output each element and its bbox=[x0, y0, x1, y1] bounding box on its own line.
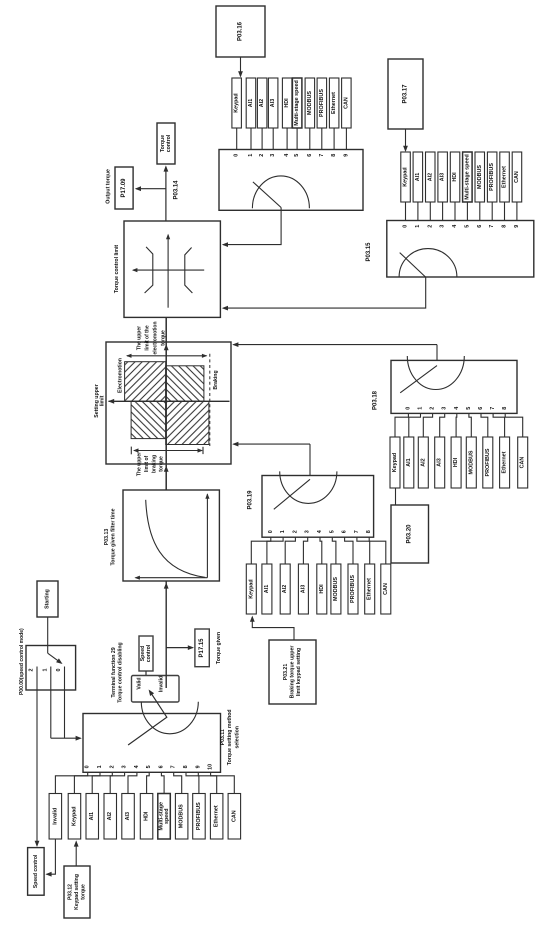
svg-text:AI3: AI3 bbox=[125, 812, 131, 820]
wire CAN to mux2 pin 9 bbox=[516, 202, 518, 221]
wire mux4 pin 3 to AI3 bbox=[303, 537, 307, 564]
double arrow: upper limit of electromotion torque span bbox=[127, 355, 207, 357]
svg-text:PROFIBUS: PROFIBUS bbox=[319, 89, 325, 117]
wire mux4 pin 1 to AI1 bbox=[267, 537, 283, 564]
svg-text:P03.14: P03.14 bbox=[174, 180, 180, 200]
svg-text:CAN: CAN bbox=[343, 97, 349, 109]
svg-text:Speed: Speed bbox=[140, 646, 146, 662]
input box AI1 (bank2) bbox=[413, 152, 423, 202]
svg-text:Ethernet: Ethernet bbox=[331, 92, 337, 114]
wire Keypad to mux2 pin 0 bbox=[405, 202, 407, 221]
svg-text:P03.15: P03.15 bbox=[366, 242, 372, 262]
svg-text:Keypad setting: Keypad setting bbox=[74, 874, 80, 910]
svg-text:5: 5 bbox=[466, 407, 472, 410]
svg-text:AI1: AI1 bbox=[264, 585, 270, 593]
input box AI2 (bank5) bbox=[104, 794, 117, 840]
svg-text:MODBUS: MODBUS bbox=[307, 91, 313, 115]
input box Ethernet (bank2) bbox=[500, 152, 510, 202]
svg-text:MODBUS: MODBUS bbox=[333, 577, 339, 601]
svg-text:6: 6 bbox=[307, 154, 313, 157]
svg-text:CAN: CAN bbox=[520, 457, 526, 469]
svg-text:Keypad: Keypad bbox=[234, 93, 240, 112]
limiter horizontal axis bbox=[133, 269, 204, 271]
svg-text:Keypad: Keypad bbox=[248, 579, 254, 598]
input box Keypad (bank4) bbox=[246, 564, 256, 614]
wire MODBUS to mux1 pin 6 bbox=[309, 128, 311, 150]
svg-text:P03.21: P03.21 bbox=[283, 664, 289, 681]
mux P03.15 selector box bbox=[387, 221, 534, 278]
svg-text:Multi-stage speed: Multi-stage speed bbox=[294, 80, 300, 126]
mux1 wiper bbox=[253, 182, 281, 208]
svg-text:HDI: HDI bbox=[452, 172, 458, 182]
svg-text:electromotion: electromotion bbox=[153, 321, 159, 354]
svg-text:limit of the: limit of the bbox=[145, 325, 151, 350]
mux P03.19 selector box bbox=[262, 476, 374, 538]
svg-text:HDI: HDI bbox=[453, 457, 459, 467]
wire mux3 output to quadrant box bbox=[233, 344, 437, 346]
svg-text:Output torque: Output torque bbox=[106, 169, 112, 204]
svg-text:P03.12: P03.12 bbox=[68, 884, 74, 900]
svg-text:Torque control disabling: Torque control disabling bbox=[117, 642, 123, 702]
vertical flow axis of quadrant box bbox=[165, 342, 167, 464]
wire PROFIBUS to mux2 pin 7 bbox=[491, 202, 493, 221]
input box HDI (bank4) bbox=[317, 564, 327, 614]
hatched region quadrant Q4 bbox=[166, 401, 209, 444]
svg-text:AI1: AI1 bbox=[415, 173, 421, 181]
position line 1 bbox=[50, 667, 52, 691]
wire mux3 pin 6 to PROFIBUS bbox=[481, 413, 488, 437]
box P03.20 (electromotion torque upper limit keypad setting) bbox=[391, 505, 429, 563]
wire mux3 pin 3 to AI3 bbox=[440, 413, 445, 437]
input box PROFIBUS (bank3) bbox=[483, 437, 493, 488]
svg-text:5: 5 bbox=[329, 530, 335, 533]
svg-text:Braking: Braking bbox=[213, 370, 219, 389]
wire P03.16 to Keypad input bbox=[240, 57, 242, 76]
svg-text:1: 1 bbox=[415, 225, 421, 228]
wire Invalid to speed control bbox=[47, 839, 56, 874]
wire mux4 pin 4 to HDI bbox=[320, 537, 322, 564]
wire mux3 pin 1 to AI1 bbox=[409, 413, 421, 437]
svg-text:AI2: AI2 bbox=[420, 458, 426, 466]
limiter vertical axis bbox=[167, 235, 169, 308]
svg-text:2: 2 bbox=[430, 407, 436, 410]
svg-text:2: 2 bbox=[109, 765, 115, 768]
input box HDI (bank5) bbox=[140, 794, 153, 840]
svg-text:7: 7 bbox=[489, 225, 495, 228]
svg-text:1: 1 bbox=[42, 669, 48, 672]
input box Multi-stage speed (bank1) bbox=[292, 78, 302, 128]
mux P03.11 torque setting method selection box bbox=[83, 714, 221, 773]
wire valid switch to filter box bbox=[165, 581, 167, 688]
box P03.16 (electromotion torque upper limit keypad value) bbox=[216, 6, 265, 57]
svg-text:5: 5 bbox=[464, 225, 470, 228]
svg-text:7: 7 bbox=[171, 765, 177, 768]
wire filter box to quadrant box bbox=[165, 465, 167, 490]
svg-text:P03.18: P03.18 bbox=[372, 390, 378, 410]
wire position 1 down bbox=[50, 690, 52, 738]
svg-text:P03.20: P03.20 bbox=[407, 524, 413, 544]
svg-text:P03.17: P03.17 bbox=[403, 84, 409, 104]
wire MODBUS to mux2 pin 6 bbox=[479, 202, 481, 221]
input box MODBUS (bank1) bbox=[305, 78, 315, 128]
wire torque control limit to torque control bbox=[165, 167, 167, 221]
svg-text:1: 1 bbox=[248, 154, 254, 157]
box P03.12 keypad setting torque bbox=[64, 866, 90, 918]
svg-text:AI3: AI3 bbox=[440, 173, 446, 181]
wire mux4 output to quadrant box bbox=[233, 443, 310, 445]
svg-text:8: 8 bbox=[502, 225, 508, 228]
svg-text:HDI: HDI bbox=[144, 811, 150, 821]
mux5 wiper to valid/invalid switch bbox=[128, 691, 167, 745]
input box Ethernet (bank3) bbox=[500, 437, 510, 488]
svg-text:3: 3 bbox=[122, 765, 128, 768]
wire branch to P17.15 torque given bbox=[166, 647, 192, 649]
input box HDI (bank2) bbox=[450, 152, 460, 202]
box Starting bbox=[37, 581, 58, 617]
wire mux5 pin 6 to Multi-stage speed bbox=[161, 772, 164, 793]
svg-text:AI1: AI1 bbox=[406, 458, 412, 466]
svg-text:torque: torque bbox=[80, 884, 86, 900]
svg-text:The upper: The upper bbox=[137, 326, 143, 350]
svg-text:7: 7 bbox=[490, 407, 496, 410]
wire mux5 pin 1 to Keypad bbox=[74, 772, 100, 793]
wire mux4 pin 5 to MODBUS bbox=[332, 537, 336, 564]
svg-text:8: 8 bbox=[331, 154, 337, 157]
svg-text:PROFIBUS: PROFIBUS bbox=[485, 448, 491, 476]
box Torque control bbox=[157, 123, 175, 164]
wire Speed control to Valid bbox=[145, 671, 147, 687]
wire mux5 pin 5 to HDI bbox=[147, 772, 150, 793]
svg-text:CAN: CAN bbox=[383, 583, 389, 595]
limiter right clamp curve bbox=[185, 248, 193, 294]
svg-text:0: 0 bbox=[234, 154, 240, 157]
wire mux5 pin 9 to Ethernet bbox=[198, 772, 216, 793]
svg-text:Braking torque upper: Braking torque upper bbox=[290, 646, 296, 699]
position line 2 bbox=[36, 667, 38, 691]
svg-text:P03.11: P03.11 bbox=[220, 729, 226, 745]
wire mux5 pin 4 to AI3 bbox=[128, 772, 137, 793]
svg-text:2: 2 bbox=[292, 530, 298, 533]
svg-text:control: control bbox=[146, 644, 152, 662]
svg-text:2: 2 bbox=[29, 669, 35, 672]
wire mux4 pin 0 to Keypad bbox=[251, 537, 270, 564]
wire mux2 output to torque control limit box bbox=[223, 277, 426, 308]
input box CAN (bank3) bbox=[518, 437, 528, 488]
wire mux3 pin 5 to MODBUS bbox=[469, 413, 471, 437]
wire PROFIBUS to mux1 pin 7 bbox=[321, 128, 323, 150]
input box PROFIBUS (bank5) bbox=[193, 794, 206, 840]
mux1 rotary switch arc bbox=[252, 176, 309, 208]
wire P03.17 to Keypad input bbox=[405, 129, 407, 151]
svg-text:10: 10 bbox=[208, 764, 214, 770]
wire mux5 pin 7 to MODBUS bbox=[174, 772, 182, 793]
wire Ethernet to mux2 pin 8 bbox=[504, 202, 506, 221]
wire mux3 pin 8 to CAN bbox=[505, 413, 523, 437]
svg-text:AI2: AI2 bbox=[259, 99, 265, 107]
wire mux4 pin 6 to PROFIBUS bbox=[345, 537, 353, 564]
box Speed control (upper) bbox=[139, 636, 153, 671]
box P17.15 bbox=[195, 629, 209, 667]
mux P03.18 selector box bbox=[391, 360, 517, 413]
svg-text:2: 2 bbox=[259, 154, 265, 157]
svg-text:P17.15: P17.15 bbox=[199, 638, 205, 658]
svg-text:Torque given: Torque given bbox=[216, 632, 222, 664]
double arrow: upper limit of braking torque span bbox=[134, 450, 202, 452]
svg-text:Multi-stage speed: Multi-stage speed bbox=[464, 154, 470, 200]
hatched region quadrant Q3 bbox=[131, 401, 166, 438]
svg-text:1: 1 bbox=[97, 765, 103, 768]
hatched region braking quadrant Q2 bbox=[166, 366, 204, 402]
svg-text:Invalid: Invalid bbox=[52, 808, 58, 825]
wire mux5 pin 0 to Invalid bbox=[55, 772, 87, 793]
svg-text:3: 3 bbox=[442, 407, 448, 410]
wire to mux P03.11 bbox=[51, 737, 81, 739]
svg-text:P17.09: P17.09 bbox=[121, 178, 127, 198]
input box CAN (bank1) bbox=[342, 78, 352, 128]
svg-text:speed: speed bbox=[164, 808, 170, 824]
wire Ethernet to mux1 pin 8 bbox=[333, 128, 335, 150]
svg-text:selection: selection bbox=[234, 726, 240, 749]
svg-text:MODBUS: MODBUS bbox=[477, 165, 483, 189]
svg-text:AI3: AI3 bbox=[437, 458, 443, 466]
box P00.00 speed control mode selector bbox=[26, 646, 76, 691]
input box AI2 (bank2) bbox=[426, 152, 436, 202]
mux selector box (electromotion torque upper limit source) bbox=[219, 150, 363, 211]
wire AI2 to mux1 pin 2 bbox=[261, 128, 263, 150]
svg-text:Torque given filter time: Torque given filter time bbox=[111, 508, 117, 565]
svg-text:8: 8 bbox=[183, 765, 189, 768]
filter horizontal axis bbox=[136, 577, 208, 579]
input box AI2 (bank3) bbox=[418, 437, 428, 488]
wire position 0 down bbox=[64, 690, 66, 738]
svg-text:AI2: AI2 bbox=[282, 585, 288, 593]
wire mux3 pin 0 to Keypad bbox=[395, 413, 408, 437]
input box HDI (bank3) bbox=[451, 437, 461, 488]
wire Keypad to P03.20 bbox=[395, 488, 397, 505]
svg-text:Keypad: Keypad bbox=[71, 806, 77, 825]
tick at left end of braking span bbox=[130, 447, 132, 455]
input box PROFIBUS (bank4) bbox=[348, 564, 358, 614]
wire HDI to mux1 pin 4 bbox=[286, 128, 288, 150]
hatched region electromotion quadrant Q1 bbox=[125, 362, 166, 402]
svg-text:1: 1 bbox=[418, 407, 424, 410]
svg-text:9: 9 bbox=[514, 225, 520, 228]
wire mux5 pin 3 to AI2 bbox=[110, 772, 124, 793]
input box Multi-stage speed (bank5) bbox=[158, 794, 171, 840]
svg-text:HDI: HDI bbox=[284, 98, 290, 108]
svg-text:7: 7 bbox=[354, 530, 360, 533]
input box PROFIBUS (bank1) bbox=[317, 78, 327, 128]
wire mux4 pin 2 to AI2 bbox=[285, 537, 295, 564]
svg-text:limit of: limit of bbox=[144, 455, 150, 472]
wire mux1 output to torque control limit box bbox=[223, 208, 281, 245]
svg-text:3: 3 bbox=[305, 530, 311, 533]
svg-text:6: 6 bbox=[478, 407, 484, 410]
svg-text:4: 4 bbox=[317, 530, 323, 533]
svg-text:2: 2 bbox=[427, 225, 433, 228]
svg-text:6: 6 bbox=[342, 530, 348, 533]
switch wiper to position 0 bbox=[48, 653, 62, 663]
svg-text:0: 0 bbox=[403, 225, 409, 228]
svg-text:PROFIBUS: PROFIBUS bbox=[196, 802, 202, 830]
dashed boundary line bbox=[209, 354, 211, 446]
svg-text:limit keypad setting: limit keypad setting bbox=[296, 648, 302, 696]
svg-text:P03.13: P03.13 bbox=[104, 529, 110, 546]
svg-text:PROFIBUS: PROFIBUS bbox=[350, 575, 356, 603]
svg-text:The upper: The upper bbox=[137, 452, 143, 476]
wire mux4 pin 7 to Ethernet bbox=[357, 537, 370, 564]
position line 0 bbox=[64, 667, 66, 691]
tick at right end of braking span bbox=[202, 447, 204, 454]
input box Ethernet (bank4) bbox=[365, 564, 375, 614]
svg-text:8: 8 bbox=[366, 530, 372, 533]
wire P03.12 to Keypad (bank5) bbox=[75, 842, 77, 866]
svg-text:CAN: CAN bbox=[514, 171, 520, 183]
input box Ethernet (bank5) bbox=[210, 794, 223, 840]
wire position 2 to speed control bbox=[36, 690, 38, 846]
input box AI1 (bank1) bbox=[246, 78, 256, 128]
input box Multi-stage speed (bank2) bbox=[463, 152, 473, 202]
svg-text:9: 9 bbox=[195, 765, 201, 768]
input box MODBUS (bank5) bbox=[175, 794, 188, 840]
svg-text:limit: limit bbox=[100, 395, 106, 406]
box P03.13 torque given filter time bbox=[123, 490, 219, 581]
svg-text:8: 8 bbox=[502, 407, 508, 410]
wire AI2 to mux2 pin 2 bbox=[429, 202, 431, 221]
svg-text:MODBUS: MODBUS bbox=[179, 804, 185, 828]
input box AI3 (bank3) bbox=[435, 437, 445, 488]
mux2 wiper bbox=[400, 253, 426, 277]
svg-text:Torque: Torque bbox=[160, 135, 166, 152]
input box AI3 (bank5) bbox=[122, 794, 135, 840]
svg-text:5: 5 bbox=[294, 154, 300, 157]
input box AI2 (bank4) bbox=[280, 564, 290, 614]
mux3 rotary switch arc bbox=[407, 356, 464, 390]
wire P03.21 to Keypad (bank4) bbox=[252, 617, 294, 640]
wire mux5 pin 8 to PROFIBUS bbox=[186, 772, 199, 793]
input box Keypad (bank1) bbox=[232, 78, 242, 128]
input box Keypad (bank5) bbox=[68, 794, 81, 840]
input box Keypad (bank3) bbox=[390, 437, 400, 488]
svg-text:5: 5 bbox=[146, 765, 152, 768]
input box AI3 (bank4) bbox=[298, 564, 308, 614]
mux4 rotary switch arc bbox=[280, 471, 337, 503]
input box Ethernet (bank1) bbox=[329, 78, 339, 128]
wire AI1 to mux1 pin 1 bbox=[250, 128, 252, 150]
svg-text:Speed control: Speed control bbox=[33, 854, 39, 888]
wire mux5 pin 10 to CAN bbox=[211, 772, 235, 793]
svg-text:6: 6 bbox=[158, 765, 164, 768]
svg-text:0: 0 bbox=[268, 530, 274, 533]
svg-text:6: 6 bbox=[477, 225, 483, 228]
box Speed control (lower) bbox=[28, 848, 44, 896]
wire CAN to mux1 pin 9 bbox=[345, 128, 347, 150]
svg-text:4: 4 bbox=[284, 154, 290, 157]
wire quadrant box to torque control limit box bbox=[165, 317, 167, 342]
input box AI1 (bank3) bbox=[404, 437, 414, 488]
svg-text:3: 3 bbox=[270, 154, 276, 157]
svg-text:4: 4 bbox=[452, 225, 458, 228]
svg-text:AI3: AI3 bbox=[270, 99, 276, 107]
svg-text:torque: torque bbox=[159, 456, 165, 472]
wire mux5 pin 2 to AI1 bbox=[92, 772, 112, 793]
svg-text:Ethernet: Ethernet bbox=[214, 805, 220, 827]
wire mux4 pin 8 to CAN bbox=[369, 537, 386, 564]
input box Keypad (bank2) bbox=[401, 152, 411, 202]
svg-text:AI2: AI2 bbox=[107, 812, 113, 820]
mux5 rotary switch arc bbox=[141, 702, 198, 734]
box P03.17 (braking torque upper limit keypad value) bbox=[388, 59, 423, 129]
svg-text:9: 9 bbox=[343, 154, 349, 157]
svg-text:Terminal function 29: Terminal function 29 bbox=[111, 647, 117, 697]
input box MODBUS (bank2) bbox=[475, 152, 485, 202]
wire Multi-stage speed to mux2 pin 5 bbox=[466, 202, 468, 221]
mux3 wiper bbox=[400, 366, 437, 393]
svg-text:0: 0 bbox=[56, 669, 62, 672]
wire mux3 pin 7 to Ethernet bbox=[493, 413, 505, 437]
svg-text:Keypad: Keypad bbox=[392, 453, 398, 472]
svg-text:0: 0 bbox=[85, 765, 91, 768]
wire HDI to mux2 pin 4 bbox=[454, 202, 456, 221]
input box PROFIBUS (bank2) bbox=[487, 152, 497, 202]
svg-text:control: control bbox=[166, 134, 172, 152]
limiter left clamp curve bbox=[145, 247, 153, 293]
valid/invalid switch box bbox=[132, 676, 180, 703]
input box AI3 (bank1) bbox=[268, 78, 278, 128]
svg-text:Torque control limit: Torque control limit bbox=[114, 245, 120, 294]
svg-text:7: 7 bbox=[319, 154, 325, 157]
torque control limit box bbox=[124, 221, 220, 317]
filter response curve bbox=[146, 500, 206, 578]
input box AI1 (bank4) bbox=[262, 564, 272, 614]
input box CAN (bank4) bbox=[381, 564, 391, 614]
wire branch to P17.09 output torque bbox=[136, 188, 166, 190]
input box CAN (bank5) bbox=[228, 794, 241, 840]
wire AI1 to mux2 pin 1 bbox=[417, 202, 419, 221]
wire mux3 pin 4 to HDI bbox=[455, 413, 458, 437]
svg-text:PROFIBUS: PROFIBUS bbox=[489, 163, 495, 191]
input box MODBUS (bank4) bbox=[331, 564, 341, 614]
svg-text:Ethernet: Ethernet bbox=[502, 166, 508, 188]
wire Keypad to mux1 pin 0 bbox=[236, 128, 238, 150]
svg-text:1: 1 bbox=[280, 530, 286, 533]
svg-text:AI3: AI3 bbox=[300, 585, 306, 593]
svg-text:MODBUS: MODBUS bbox=[468, 450, 474, 474]
svg-text:Ethernet: Ethernet bbox=[367, 578, 373, 600]
input box CAN (bank2) bbox=[512, 152, 522, 202]
svg-text:P03.16: P03.16 bbox=[238, 21, 244, 41]
input box AI3 (bank2) bbox=[438, 152, 448, 202]
wire AI3 to mux1 pin 3 bbox=[272, 128, 274, 150]
mux4 wiper bbox=[274, 479, 310, 509]
svg-text:HDI: HDI bbox=[319, 584, 325, 594]
mux2 rotary switch arc bbox=[399, 249, 457, 277]
filter vertical axis bbox=[206, 494, 208, 578]
svg-text:4: 4 bbox=[134, 765, 140, 768]
wire AI3 to mux2 pin 3 bbox=[442, 202, 444, 221]
box P03.21 braking torque upper limit keypad setting bbox=[269, 640, 316, 704]
input box HDI (bank1) bbox=[282, 78, 292, 128]
box P17.09 bbox=[115, 167, 133, 209]
quadrant box (electromotion / braking torque regions) bbox=[106, 342, 231, 464]
input box AI2 (bank1) bbox=[257, 78, 267, 128]
input box Invalid (bank5) bbox=[49, 794, 62, 840]
svg-text:Keypad: Keypad bbox=[403, 167, 409, 186]
svg-text:0: 0 bbox=[405, 407, 411, 410]
svg-text:4: 4 bbox=[454, 407, 460, 410]
svg-text:Starting: Starting bbox=[45, 589, 51, 609]
wire Starting to speed mode switch bbox=[47, 617, 49, 653]
